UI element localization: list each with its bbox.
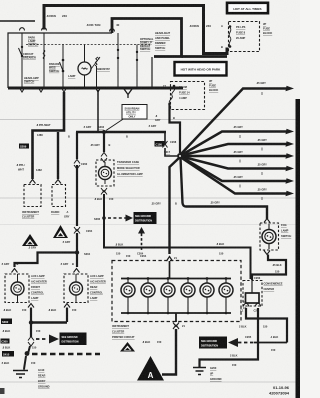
wire: rheostat leg: [96, 66, 98, 88]
cluster lamp 3: [161, 277, 175, 313]
connector bump at park lamp switch pin: [20, 28, 25, 31]
wire: ground leg below S302: [30, 323, 32, 338]
wire: fan 4: [182, 155, 288, 158]
fog lamp switch dashed box: [260, 223, 279, 250]
connector arrow under box x41: [39, 88, 44, 92]
section divider (faint): [0, 224, 296, 226]
triangle symbol 1: [22, 234, 38, 246]
wire: fan 1 to illum feed arrow (top): [181, 89, 288, 155]
fuse 14 terminals and element: [173, 85, 176, 88]
splice label S302: [1, 319, 12, 325]
splice label S209: [19, 144, 29, 149]
radio dashed box: [52, 185, 66, 207]
ground symbol G200: [200, 330, 259, 367]
cluster lamp 2: [141, 277, 155, 313]
connector label C300: [1, 339, 10, 344]
wire: park lamp switch leg: [21, 33, 23, 88]
connector arrows into cluster/radio: [30, 180, 36, 184]
connector arrow into interior lamp box: [167, 257, 173, 262]
splice dot S203: [102, 130, 106, 134]
aux rear lamp symbol: [70, 282, 83, 295]
connector arrows into aux front lamp: [12, 269, 18, 273]
transfer case lamp dashed box: [96, 160, 114, 186]
pointer down from ground box: [138, 227, 145, 234]
wire: circuit breaker leg: [43, 33, 45, 88]
box: HOT AT ALL TIMES: [227, 3, 268, 13]
circuit breaker symbol: [43, 50, 45, 59]
convenience center dashed box: [243, 281, 262, 307]
lamp return bus: [121, 312, 231, 314]
connector arrow under box x64: [62, 88, 67, 92]
connector bumps below convenience center: [244, 303, 261, 306]
wire: aux rear ground leg: [66, 308, 68, 323]
wire: convenience center left pigtail: [246, 308, 287, 343]
splice dot S204: [75, 250, 79, 254]
splice S302 dot and bus: [29, 320, 33, 324]
fog lamp switch connector arrow: [264, 219, 270, 223]
splice label S410: [2, 351, 14, 357]
connector bump at feed pin: [42, 28, 47, 31]
wire: fuse 14 output to splice S217: [170, 105, 181, 153]
fuse box: ILLUM FUSE 14 dashed: [171, 82, 205, 110]
connector arrow below fog switch: [264, 251, 270, 255]
fog lamp switch symbol: [262, 230, 276, 244]
section divider (faint): [0, 119, 296, 121]
wire: .4 BLK dashed then solid: [238, 342, 254, 344]
connector arrows into aux rear lamp: [74, 269, 80, 273]
wire: aux front ground leg: [30, 308, 32, 323]
wire: fan 7: [181, 158, 288, 194]
panel lamp (circle with filament): [78, 62, 91, 75]
instrument cluster dashed box: [24, 185, 41, 207]
aux front lamp dashed box: [5, 274, 29, 303]
black box SEE GROUND DISTRIBUTION (right): [199, 337, 227, 349]
wire: lamp legs: [84, 45, 86, 89]
headlamp switch box bottom bus (thick): [8, 87, 183, 90]
connector C208 arrows: [163, 141, 168, 148]
rheostat symbol: [95, 57, 98, 66]
wire: .35 GRY to transfer case lamp: [103, 133, 105, 152]
cluster lamp 6: [219, 277, 233, 313]
wire: .8 BLK to ground triangle: [162, 329, 176, 375]
wire: aux lamp bus to left: [15, 253, 77, 268]
page border right: [296, 99, 301, 398]
connector C202 arrows: [74, 160, 80, 170]
black box SEE GROUND DISTRIBUTION (mid): [134, 212, 157, 224]
wire: fan 6: [182, 157, 289, 181]
wire: .8 DK TAN 40 step wire into switch top: [112, 19, 182, 57]
connector arrow under box x22: [20, 88, 25, 92]
connector arrows at cluster exit: [173, 323, 179, 330]
wire: .5 GRY panel dimmer feed down: [97, 90, 99, 131]
ground symbol G410: [13, 371, 28, 378]
ground distribution pointer dashes: [108, 217, 126, 219]
wire: fog switch ground to convenience center: [252, 255, 286, 281]
wire: dome defeat leg: [136, 45, 138, 89]
aux front lamp symbol: [11, 282, 24, 295]
wire: transfer lamp ground return: [104, 194, 251, 279]
wire: fan 9 down to interior lamps feed: [170, 158, 180, 254]
pointer arrow into ground box: [228, 338, 238, 347]
connector C204 arrows on left branch: [74, 227, 80, 234]
wire: fan 5: [182, 157, 289, 169]
fuse box: PK LPS FUSE 8 dashed: [229, 22, 260, 52]
connector arrow under box x128 (large): [124, 89, 132, 98]
wire: fan 8 to fog lamp switch: [181, 158, 268, 219]
connector arrows below aux lamps: [28, 304, 70, 308]
wire: fan 2: [182, 132, 289, 156]
connector C100 black label: [155, 141, 165, 147]
headlamp switch contacts: [62, 59, 65, 62]
cluster lamp 5: [200, 277, 214, 313]
wire: GRY illumination bus: [76, 131, 166, 133]
interior lamps dashed box: [112, 261, 241, 322]
connector arrows at C202 top of transfer lamp: [101, 153, 107, 163]
splice dot S206: [102, 216, 106, 220]
aux rear lamp dashed box: [64, 274, 88, 303]
mechanical link dashed: [26, 44, 150, 46]
note leader to suburban box: [106, 119, 124, 131]
wire: .8 PPL/WHT branch to radio: [57, 132, 59, 179]
section divider (faint): [0, 197, 296, 199]
connector C300 arrows: [28, 337, 34, 347]
connector arrow under box x98: [96, 88, 101, 92]
heavy dashed bus to right: [32, 353, 100, 356]
wire: dimmer leg with contacts: [117, 33, 119, 88]
cluster lamp 4: [181, 277, 195, 313]
triangle symbol 2: [53, 225, 68, 238]
cluster lamp 1: [121, 277, 135, 313]
wire: cluster ground exit: [175, 313, 177, 322]
black box SEE GROUND DISTRIBUTION (left): [60, 333, 87, 346]
transfer case lamp symbol: [99, 167, 112, 180]
lamp feed bus: [121, 261, 231, 279]
page corner smudge: [0, 388, 5, 394]
note box SUBURBAN UTILITY ONLY: [122, 105, 147, 120]
park lamp switch contacts: [21, 46, 23, 48]
section divider (faint): [0, 381, 296, 383]
headlamp switch box outline: [8, 33, 152, 88]
wire: fan 3: [182, 144, 289, 156]
connector bump at dk tan pin: [110, 29, 115, 32]
triangle symbol 3: [120, 342, 135, 352]
wire: to G410 splice: [28, 346, 30, 354]
fuse terminals and element: [229, 25, 232, 28]
wire: off-page stub top left: [0, 20, 35, 22]
ground reference triangle A: [137, 356, 164, 381]
ground distribution pointer from S302: [36, 338, 48, 340]
wire: .8 PPL/WHT from headlamp switch: [33, 92, 65, 179]
splice junction dot S217: [177, 153, 183, 159]
wire: to ILLUM/PK fuse bottom: [182, 55, 228, 58]
wire: down to G410 ground: [24, 356, 26, 369]
splice dot S410: [25, 351, 30, 356]
wire: bus down to C208 and S217: [165, 132, 177, 156]
buzzer element in convenience center: [251, 281, 253, 293]
wire: headlamp switch leg: [62, 45, 64, 89]
wire: .8 DKN 240 park feed from fuse to headlamp switch: [44, 6, 227, 54]
connector arrows below transfer lamp: [101, 188, 107, 195]
wire: .5 GRY C202 branch down left side: [76, 132, 78, 267]
pin ticks on fan wires: [240, 92, 262, 200]
box: HOT WITH HEAD OR PARK: [175, 62, 227, 76]
wire: convenience center right pigtail to G200: [257, 308, 259, 330]
